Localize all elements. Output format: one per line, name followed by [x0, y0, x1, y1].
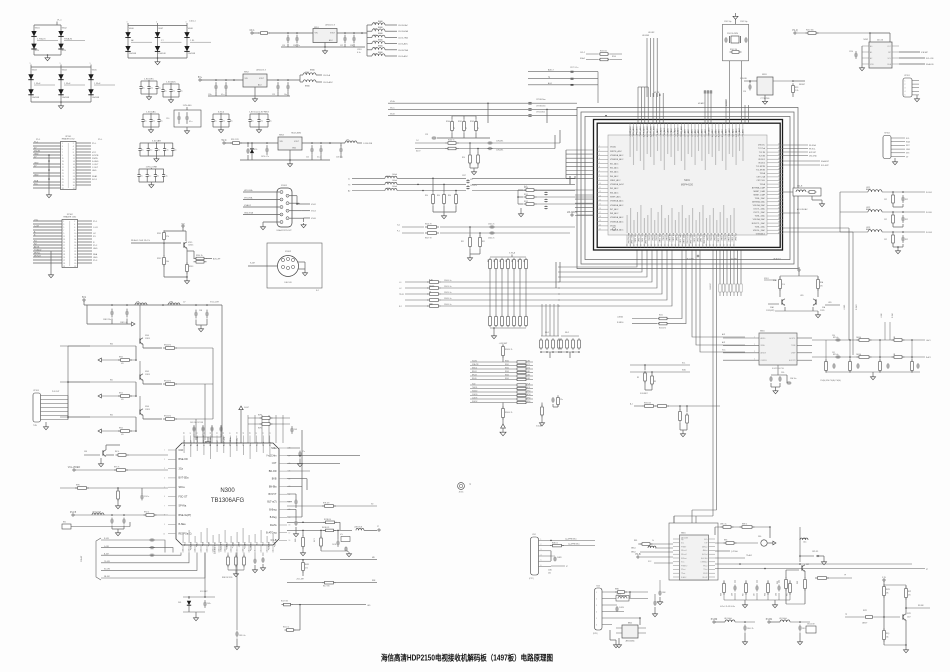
svg-text:LIF-AOUT: LIF-AOUT — [773, 258, 781, 261]
svg-text:C-CR: C-CR — [34, 225, 40, 227]
svg-text:R1C7 1M: R1C7 1M — [281, 601, 288, 603]
svg-text:50: 50 — [679, 244, 681, 246]
svg-text:VSS_ADC: VSS_ADC — [663, 127, 666, 137]
svg-text:R9P5: R9P5 — [886, 589, 890, 591]
svg-text:71: 71 — [778, 168, 780, 170]
svg-text:VDD_DAC: VDD_DAC — [658, 233, 661, 243]
svg-text:48: 48 — [236, 432, 238, 434]
svg-text:CLK5-PRA: CLK5-PRA — [398, 49, 408, 52]
wire XS101 left — [243, 189, 280, 230]
svg-text:R914 1k: R914 1k — [196, 255, 203, 257]
svg-text:R-CH1: R-CH1 — [926, 192, 932, 194]
svg-text:V905: V905 — [145, 371, 149, 373]
svg-text:XTI_ADC: XTI_ADC — [656, 128, 659, 137]
svg-text:CLK5-ADC: CLK5-ADC — [398, 55, 408, 58]
svg-text:FB-2: FB-2 — [565, 332, 569, 334]
svg-text:VDDA: VDDA — [610, 225, 616, 228]
svg-text:74: 74 — [778, 179, 780, 181]
network above N300 — [239, 406, 297, 443]
svg-text:81: 81 — [778, 204, 780, 206]
svg-text:1: 1 — [30, 63, 31, 65]
svg-text:SP-INa: SP-INa — [179, 505, 187, 508]
svg-text:ATRIMA_DIAF: ATRIMA_DIAF — [752, 186, 766, 189]
wire XS102 — [248, 243, 322, 292]
svg-text:R60B: R60B — [295, 538, 297, 542]
svg-text:10u: 10u — [142, 88, 145, 90]
svg-text:4k7: 4k7 — [517, 259, 519, 262]
svg-text:DsLTa: DsLTa — [270, 524, 277, 527]
svg-text:C301 0.1u: C301 0.1u — [444, 286, 451, 288]
wire LED row — [281, 601, 371, 632]
svg-text:26: 26 — [74, 257, 76, 259]
svg-text:BEAD: BEAD — [305, 85, 311, 88]
svg-text:4k7: 4k7 — [487, 259, 489, 262]
transistor V9P1 stage — [845, 577, 930, 653]
diode V605 — [88, 67, 115, 102]
IC N801 body — [673, 533, 715, 581]
svg-text:A-RCPK0: A-RCPK0 — [219, 542, 222, 552]
svg-text:C0F: C0F — [294, 429, 297, 431]
svg-text:A3_ADC: A3_ADC — [721, 129, 724, 137]
svg-text:C300 0.1u: C300 0.1u — [444, 280, 451, 282]
svg-text:SD-1/M: SD-1/M — [104, 569, 110, 571]
svg-text:10u: 10u — [180, 91, 183, 93]
svg-text:C31x 47u: C31x 47u — [470, 185, 477, 187]
svg-text:63: 63 — [723, 244, 725, 246]
svg-text:49: 49 — [243, 432, 245, 434]
svg-text:R925: R925 — [119, 428, 123, 430]
svg-text:V906: V906 — [145, 406, 149, 408]
svg-text:54: 54 — [692, 244, 694, 246]
svg-text:5VSTB: 5VSTB — [92, 155, 99, 157]
svg-text:RESQ_DAC: RESQ_DAC — [644, 233, 647, 245]
svg-text:R4.7 470: R4.7 470 — [323, 586, 330, 588]
svg-text:L-2: L-2 — [399, 288, 402, 290]
svg-text:LIF-IN2: LIF-IN2 — [648, 32, 654, 34]
svg-text:L9Y6 120uH: L9Y6 120uH — [92, 512, 102, 514]
svg-text:R241: R241 — [458, 121, 462, 123]
wire VD bus — [388, 99, 607, 123]
svg-text:VDDA_ADC: VDDA_ADC — [629, 126, 632, 137]
svg-text:AUD-Y: AUD-Y — [548, 69, 555, 72]
svg-text:BSM-x(5): BSM-x(5) — [223, 436, 225, 446]
svg-text:R240: R240 — [446, 121, 450, 123]
svg-text:VG-G: VG-G — [311, 211, 316, 213]
capacitor cluster C370 — [536, 395, 563, 427]
svg-text:1k: 1k — [652, 540, 654, 542]
svg-text:31: 31 — [62, 188, 64, 190]
svg-text:L9B2: L9B2 — [169, 302, 173, 304]
wire video in — [60, 485, 168, 509]
svg-text:35: 35 — [627, 244, 629, 246]
svg-text:470: 470 — [121, 434, 124, 436]
svg-text:CSTC-VA: CSTC-VA — [756, 176, 765, 179]
svg-text:G-1: G-1 — [397, 225, 400, 227]
svg-text:L/C: L/C — [93, 233, 97, 235]
svg-text:TDDA: TDDA — [760, 183, 766, 186]
svg-text:NP50: NP50 — [527, 394, 531, 396]
svg-text:f-OT: f-OT — [272, 462, 277, 465]
capacitor bank C-1.8V-DEC — [139, 79, 160, 100]
connector XS3 — [593, 586, 619, 648]
svg-text:VGA-LR: VGA-LR — [244, 204, 252, 207]
svg-text:C202 10p: C202 10p — [740, 21, 747, 23]
svg-text:EXP-INT: EXP-INT — [809, 152, 817, 154]
svg-text:R311: R311 — [524, 194, 528, 196]
svg-text:R-SND0: R-SND0 — [617, 322, 623, 324]
svg-text:VDDD1: VDDD1 — [758, 159, 766, 161]
svg-text:29: 29 — [63, 263, 65, 265]
svg-text:FB97: FB97 — [305, 72, 309, 74]
svg-text:3.3V-4: 3.3V-4 — [218, 112, 225, 114]
svg-text:100uH: 100uH — [392, 186, 398, 188]
svg-text:XS3: XS3 — [596, 586, 599, 588]
svg-text:VID-IN: VID-IN — [34, 150, 41, 152]
svg-text:MMBT_DIAF: MMBT_DIAF — [753, 190, 765, 193]
svg-text:R-B3: R-B3 — [527, 375, 531, 377]
svg-text:C1N: C1N — [179, 449, 184, 452]
svg-text:6: 6 — [599, 166, 600, 168]
wire LIF-ADC1 — [567, 211, 594, 216]
svg-text:R9Z 1k: R9Z 1k — [144, 512, 149, 514]
svg-text:XS101: XS101 — [281, 185, 288, 187]
svg-text:4.8k: 4.8k — [548, 572, 551, 574]
svg-text:31: 31 — [63, 266, 65, 268]
svg-text:XS102: XS102 — [285, 251, 292, 253]
svg-text:7: 7 — [599, 170, 600, 172]
svg-text:CVB-DEL: CVB-DEL — [496, 150, 503, 152]
svg-text:CAP1_DAC: CAP1_DAC — [679, 233, 682, 244]
capacitor bank C-1.8V-CORE — [137, 167, 167, 188]
svg-text:17: 17 — [201, 549, 203, 551]
svg-text:VS_DAC: VS_DAC — [675, 233, 678, 242]
svg-text:TDBL_DAC: TDBL_DAC — [755, 215, 766, 218]
svg-text:R-B5: R-B5 — [527, 378, 531, 380]
svg-text:27: 27 — [63, 260, 65, 262]
connector XP201 — [903, 75, 920, 102]
input filter L9Y6 — [70, 512, 168, 536]
ferrite cluster FB-2 — [560, 332, 581, 358]
svg-text:L-SND0: L-SND0 — [617, 317, 623, 319]
wire snd — [881, 312, 894, 340]
svg-text:VDD_DAC: VDD_DAC — [717, 233, 720, 243]
svg-text:V9P1: V9P1 — [907, 613, 911, 615]
svg-text:V38B0x: V38B0x — [225, 542, 227, 551]
svg-text:ADCA_ADC: ADCA_ADC — [646, 126, 649, 137]
wire IC top bundle — [638, 87, 748, 123]
svg-text:10u: 10u — [174, 150, 177, 152]
svg-text:10u: 10u — [156, 176, 159, 178]
wire IC bottom bundle R — [719, 251, 742, 297]
svg-text:C7x: C7x — [302, 451, 305, 453]
wire — [34, 20, 62, 61]
svg-text:L301: L301 — [386, 182, 390, 184]
svg-text:D3_ADC: D3_ADC — [694, 129, 697, 137]
svg-text:68: 68 — [778, 158, 780, 160]
svg-text:VS_DAC: VS_DAC — [734, 233, 737, 242]
svg-text:RD_ADC: RD_ADC — [731, 128, 734, 137]
resistors below N300 — [222, 553, 245, 580]
svg-text:84: 84 — [778, 215, 780, 217]
svg-text:SDA-EXP: SDA-EXP — [821, 160, 830, 163]
RC network G/P — [397, 224, 575, 261]
svg-text:A-1: A-1 — [630, 403, 633, 406]
svg-text:V30x: V30x — [273, 542, 275, 548]
svg-text:1: 1 — [905, 80, 906, 82]
svg-text:C1815: C1815 — [820, 310, 825, 312]
svg-text:0.47u 4.7k 470 0.01u: 0.47u 4.7k 470 0.01u — [720, 606, 735, 608]
svg-text:FB91: FB91 — [373, 29, 377, 31]
svg-text:67: 67 — [778, 154, 780, 156]
op-amp N901 — [723, 331, 812, 371]
svg-text:XTO_DAC: XTO_DAC — [634, 233, 637, 243]
svg-text:R364: R364 — [505, 375, 509, 377]
svg-text:11: 11 — [237, 549, 239, 551]
svg-text:44: 44 — [210, 432, 212, 434]
svg-text:R9W: R9W — [76, 485, 80, 487]
svg-text:75: 75 — [477, 128, 479, 130]
diode V602 — [58, 25, 85, 55]
svg-text:R12B 47k: R12B 47k — [324, 519, 331, 521]
svg-text:C303 0.1u: C303 0.1u — [444, 298, 451, 300]
svg-text:17: 17 — [63, 245, 65, 247]
svg-text:0.1u: 0.1u — [189, 121, 192, 123]
svg-text:NPO-4u: NPO-4u — [833, 337, 839, 339]
svg-text:VSSEDA_ADC: VSSEDA_ADC — [610, 200, 624, 203]
svg-text:ADCA_DAC: ADCA_DAC — [685, 233, 688, 244]
wire up right — [287, 430, 302, 517]
svg-text:2: 2 — [599, 150, 600, 152]
svg-text:XP103: XP103 — [33, 390, 38, 392]
diode V603 — [28, 67, 55, 102]
svg-text:1: 1 — [127, 22, 128, 24]
IC N201 top pins — [629, 123, 745, 170]
svg-text:61: 61 — [716, 244, 718, 246]
svg-text:AIN1/R: AIN1/R — [761, 352, 767, 355]
wire XP102 right — [78, 221, 99, 263]
svg-text:L300: L300 — [386, 176, 390, 178]
svg-text:C8F 0.1u: C8F 0.1u — [239, 635, 246, 637]
svg-text:R251: R251 — [659, 315, 663, 317]
svg-text:R9Y 75: R9Y 75 — [114, 467, 119, 469]
svg-text:B-SEa: B-SEa — [179, 523, 187, 526]
svg-text:R332 100: R332 100 — [644, 403, 651, 405]
svg-text:R9P2: R9P2 — [863, 610, 867, 612]
svg-text:VGA-PORT-OUT: VGA-PORT-OUT — [276, 229, 292, 232]
svg-text:TP1_ADC: TP1_ADC — [666, 127, 669, 137]
wires N801 left — [631, 540, 673, 563]
output branches FB97/FB98 — [252, 69, 333, 102]
svg-text:CS_ADC: CS_ADC — [725, 128, 728, 137]
svg-text:S-GND: S-GND — [92, 161, 99, 163]
svg-text:SDA1: SDA1 — [92, 175, 98, 178]
svg-text:C-LR: C-LR — [93, 227, 98, 229]
svg-text:AVSS_ADC: AVSS_ADC — [643, 126, 646, 137]
svg-text:4k7: 4k7 — [499, 259, 501, 262]
svg-text:64: 64 — [727, 244, 729, 246]
capacitor bank C-1.6V-ADC — [161, 81, 182, 103]
svg-text:HSY-VGA: HSY-VGA — [244, 189, 253, 192]
svg-text:18: 18 — [195, 549, 197, 551]
svg-text:V8P: V8P — [806, 564, 809, 566]
svg-text:24: 24 — [74, 254, 76, 256]
svg-text:BEAD: BEAD — [378, 45, 384, 48]
inductor fanout FB91-FB96 — [367, 20, 409, 58]
svg-text:C304 0.1u: C304 0.1u — [444, 304, 451, 306]
wire opamp feed — [692, 251, 745, 353]
svg-text:R30: R30 — [437, 195, 440, 197]
svg-text:4.7k: 4.7k — [340, 534, 343, 536]
svg-text:P-1: P-1 — [397, 231, 400, 233]
svg-text:B3OD0x: B3OD0x — [189, 542, 191, 551]
svg-text:R252 470: R252 470 — [659, 328, 666, 330]
svg-text:1.7k(9k) 470k 7.5k(9k) 7: 1.7k(9k) 470k 7.5k(9k) 7.5k(9k) — [820, 380, 841, 382]
svg-text:RF-B3: RF-B3 — [472, 375, 477, 377]
filter C11-B — [783, 186, 825, 207]
svg-text:INy: INy — [681, 539, 684, 541]
voltage regulator N953 — [278, 133, 302, 167]
svg-text:75: 75 — [465, 128, 467, 130]
transistor pair V9A — [764, 268, 840, 318]
svg-text:50Ohm: 50Ohm — [429, 285, 435, 287]
svg-text:78: 78 — [429, 291, 431, 293]
svg-text:C80 4.7k: C80 4.7k — [747, 628, 754, 630]
svg-text:3.3V-A: 3.3V-A — [509, 252, 515, 255]
svg-text:1 33uF: 1 33uF — [34, 83, 41, 85]
svg-text:D1_DAC: D1_DAC — [706, 233, 709, 241]
buffer V8G — [715, 536, 776, 546]
svg-text:3V3: 3V3 — [906, 153, 909, 155]
svg-text:DAC0x: DAC0x — [243, 542, 246, 550]
svg-text:B-Reg: B-Reg — [270, 516, 277, 519]
svg-text:R201 1M: R201 1M — [730, 49, 737, 51]
svg-text:VREF_ADC: VREF_ADC — [639, 126, 642, 137]
inductor filter L921 — [840, 187, 932, 207]
svg-text:P1-B1: P1-B1 — [766, 619, 773, 621]
svg-text:89: 89 — [778, 232, 780, 234]
svg-text:C-MOD: C-MOD — [472, 394, 478, 396]
svg-text:5: 5 — [599, 162, 600, 164]
svg-text:TCLSRTB: TCLSRTB — [756, 170, 766, 172]
svg-text:4.7k: 4.7k — [305, 568, 308, 570]
RC shunt network — [820, 340, 920, 382]
svg-text:ADCB_ADC: ADCB_ADC — [649, 126, 652, 137]
svg-text:GND: GND — [92, 170, 97, 172]
svg-text:20: 20 — [74, 248, 76, 250]
svg-text:16: 16 — [599, 208, 601, 210]
IC N201 right pins — [752, 144, 783, 236]
svg-text:SCL: SCL — [681, 543, 684, 545]
diode V607 — [155, 26, 182, 59]
svg-text:VREF_DAC: VREF_DAC — [682, 233, 685, 244]
svg-text:C6D+: C6D+ — [207, 603, 211, 605]
svg-text:15: 15 — [63, 242, 65, 244]
svg-text:11: 11 — [63, 236, 65, 238]
connector XP202 — [883, 133, 911, 165]
svg-text:S-2M: S-2M — [250, 263, 255, 265]
svg-text:V604: V604 — [62, 69, 68, 71]
svg-text:WR_ADC: WR_ADC — [728, 128, 731, 137]
svg-text:10k: 10k — [886, 637, 889, 639]
inductor filter L922 — [840, 207, 932, 227]
svg-text:AIN1/L: AIN1/L — [761, 337, 766, 340]
svg-text:8: 8 — [74, 230, 75, 232]
svg-text:VD-R0: VD-R0 — [472, 361, 477, 363]
svg-text:IN3_ADC: IN3_ADC — [610, 171, 619, 174]
wire LIF bundle — [642, 32, 657, 97]
svg-text:G-1/M: G-1/M — [104, 546, 109, 548]
svg-text:R95 2.2R: R95 2.2R — [231, 139, 239, 141]
svg-text:TDDA: TDDA — [760, 172, 766, 175]
IC N201 body — [608, 135, 767, 235]
connector XS2 — [529, 534, 595, 580]
svg-text:R-SND2: R-SND2 — [856, 304, 858, 310]
svg-text:VCC-DET: VCC-DET — [200, 591, 208, 593]
svg-text:GVBDAL2: GVBDAL2 — [756, 232, 766, 235]
svg-text:BD-OD: BD-OD — [269, 470, 277, 473]
svg-text:VDDC_DAC: VDDC_DAC — [689, 233, 692, 245]
svg-text:R362: R362 — [505, 368, 509, 370]
svg-text:20: 20 — [73, 170, 75, 172]
svg-text:470: 470 — [121, 363, 124, 365]
svg-text:12: 12 — [599, 191, 601, 193]
svg-text:TCLSRTB: TCLSRTB — [756, 166, 766, 168]
svg-text:MOD-3: MOD-3 — [472, 368, 477, 370]
svg-text:24: 24 — [73, 176, 75, 178]
svg-text:7: 7 — [287, 203, 288, 205]
svg-text:BEAD: BEAD — [378, 51, 384, 54]
svg-text:10u: 10u — [144, 121, 147, 123]
svg-text:N300: N300 — [220, 488, 235, 494]
svg-text:HEADER 15X2: HEADER 15X2 — [63, 216, 76, 219]
svg-text:19: 19 — [599, 220, 601, 222]
svg-text:5V-C: 5V-C — [221, 140, 226, 142]
svg-text:5V+: 5V+ — [198, 77, 203, 79]
svg-text:66: 66 — [778, 151, 780, 153]
svg-text:(CTC): (CTC) — [529, 578, 534, 580]
svg-text:100uH: 100uH — [392, 180, 398, 182]
RGB input rows — [80, 538, 205, 580]
svg-text:5: 5 — [905, 95, 906, 97]
svg-text:D6_ADC: D6_ADC — [704, 129, 707, 137]
svg-text:AG1: AG1 — [548, 82, 552, 85]
wire IC outline ring — [594, 120, 783, 251]
svg-text:72: 72 — [778, 172, 780, 174]
svg-text:TCSTB: TCSTB — [758, 155, 765, 157]
svg-text:19: 19 — [63, 248, 65, 250]
wire VD row — [287, 503, 377, 508]
svg-text:32: 32 — [73, 188, 75, 190]
network R332 — [630, 403, 720, 437]
svg-text:R8J: R8J — [743, 593, 745, 596]
svg-text:C8K: C8K — [776, 593, 778, 596]
svg-text:DEC-IN: DEC-IN — [285, 282, 292, 284]
wire bus ring — [577, 108, 798, 269]
svg-text:R-T2: R-T2 — [527, 364, 531, 366]
svg-text:VSSEDA_ADC: VSSEDA_ADC — [610, 229, 624, 232]
svg-text:SCL: SCL — [888, 58, 892, 60]
svg-text:R914 470: R914 470 — [164, 381, 171, 383]
svg-text:V602: V602 — [62, 27, 68, 29]
svg-text:B-ATCmg: B-ATCmg — [266, 532, 277, 535]
ground filters — [840, 192, 901, 254]
svg-text:9: 9 — [164, 524, 165, 526]
svg-text:VD-B: VD-B — [390, 114, 395, 116]
svg-text:RX1: RX1 — [63, 522, 66, 524]
svg-text:VCL-VIDEO: VCL-VIDEO — [68, 467, 81, 469]
svg-text:0.1u: 0.1u — [357, 52, 361, 54]
svg-text:C1815: C1815 — [145, 409, 150, 411]
